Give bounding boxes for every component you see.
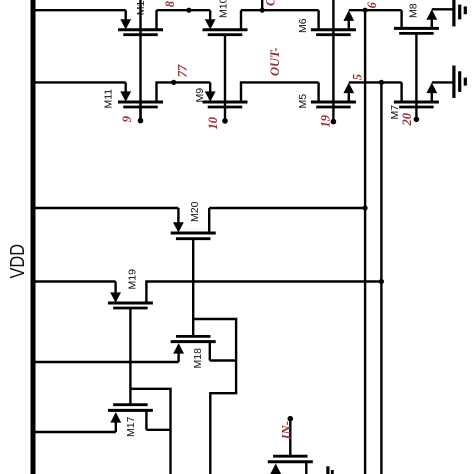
transistor M10 [203, 10, 248, 121]
svg-text:20: 20 [400, 112, 414, 126]
wire OUT- M9 drain to M5 [241, 82, 319, 102]
svg-text:5: 5 [351, 74, 365, 80]
svg-text:M9: M9 [194, 88, 206, 103]
arrow M11 [120, 91, 131, 101]
vertical net 5 (B) [380, 82, 382, 474]
wire M8 source to ground [432, 8, 453, 10]
svg-text:M20: M20 [189, 201, 201, 222]
wire M18 drain jog [210, 359, 236, 361]
wire VDD to M11 source [33, 81, 126, 83]
svg-text:M18: M18 [192, 348, 204, 369]
wire M7 source to ground [432, 81, 453, 83]
svg-text:OUT-: OUT- [268, 47, 282, 76]
transistor M11 [118, 82, 163, 120]
transistor M7 [394, 82, 439, 107]
arrow M12 [120, 19, 131, 29]
arrow M7 [426, 83, 437, 94]
node M19 drain junction [379, 279, 384, 284]
arrow M18 [173, 343, 184, 354]
wire M10 drain to M6 drain [241, 9, 319, 11]
svg-text:M12: M12 [135, 0, 147, 15]
arrow M17 [110, 412, 121, 423]
svg-text:8: 8 [163, 0, 177, 7]
arrow M20 [173, 222, 184, 232]
wire VDD to M19 source [33, 280, 116, 282]
wire M17 drain jog [146, 429, 170, 431]
wire CMFB up from node [261, 0, 263, 10]
svg-text:M8: M8 [407, 3, 419, 18]
transistor M17 [108, 405, 153, 432]
svg-text:9: 9 [120, 115, 134, 122]
svg-text:M11: M11 [103, 89, 115, 109]
transistor M15 input [268, 456, 313, 474]
node 19 dot [331, 119, 337, 125]
arrow M9 [205, 91, 216, 101]
svg-text:77: 77 [176, 64, 190, 77]
node 20 dot [414, 117, 420, 123]
wire M5 source to M7 (node 5) [349, 81, 402, 83]
ground top [454, 0, 465, 26]
transistor M8 [394, 10, 439, 119]
wire M20 drain to vertical A [209, 207, 365, 209]
transistor M6 [311, 0, 356, 122]
svg-text:M19: M19 [127, 269, 139, 290]
transistor M19 [108, 282, 153, 405]
node 10 dot [222, 118, 228, 124]
svg-text:M10: M10 [218, 0, 230, 18]
svg-text:C: C [264, 0, 278, 6]
wire M19 drain to vertical B [146, 282, 381, 304]
wire M20 gate branch to M18 drain chain [193, 319, 236, 474]
svg-text:19: 19 [319, 114, 333, 127]
wire M11 drain to M9 source (node 77) [157, 82, 211, 102]
transistor M5 [311, 82, 356, 107]
VDD rail [31, 0, 36, 474]
svg-text:10: 10 [206, 116, 220, 129]
arrow M19 [110, 292, 121, 302]
wire IN- gate lead [289, 419, 291, 457]
ground stub bottom 2 [331, 470, 334, 474]
transistor M12 [118, 0, 163, 121]
wire M12 drain to M10 source (node 8) [157, 9, 211, 11]
svg-text:M17: M17 [125, 416, 137, 437]
wire M6 source to M8 left (node 6) [349, 9, 402, 11]
wire VDD to M20 source [33, 207, 178, 209]
wire VDD to M12 source [33, 9, 126, 11]
node 8 dot [186, 8, 191, 13]
node 77 dot [171, 80, 176, 85]
node C dot [260, 8, 265, 13]
ground stub bottom [326, 466, 329, 474]
svg-text:VDD: VDD [7, 244, 29, 279]
node M20 drain junction [363, 205, 368, 210]
vertical net 6 (A) [364, 10, 366, 474]
wire M17 gate/drain branch down [130, 389, 170, 474]
node 5 dot [379, 80, 384, 85]
svg-text:IN-: IN- [279, 421, 293, 440]
svg-text:M5: M5 [297, 94, 309, 109]
transistor M18 [171, 336, 216, 362]
node 6 dot [363, 8, 368, 13]
node 9 dot [138, 118, 144, 124]
arrows [110, 8, 437, 474]
node IN- dot [288, 416, 294, 422]
wire M18 source to VDD [33, 361, 179, 363]
arrow M8 [426, 9, 437, 20]
arrow M6 [343, 10, 354, 21]
arrow M5 [343, 83, 354, 94]
svg-text:M6: M6 [297, 18, 309, 33]
svg-text:6: 6 [365, 1, 379, 8]
transistor M9 [203, 82, 248, 107]
arrow M15 [270, 464, 281, 474]
wire M17 source to VDD [33, 431, 116, 433]
arrow M10 [205, 19, 216, 29]
transistor M20 [171, 208, 216, 336]
ground bottom [454, 66, 465, 99]
